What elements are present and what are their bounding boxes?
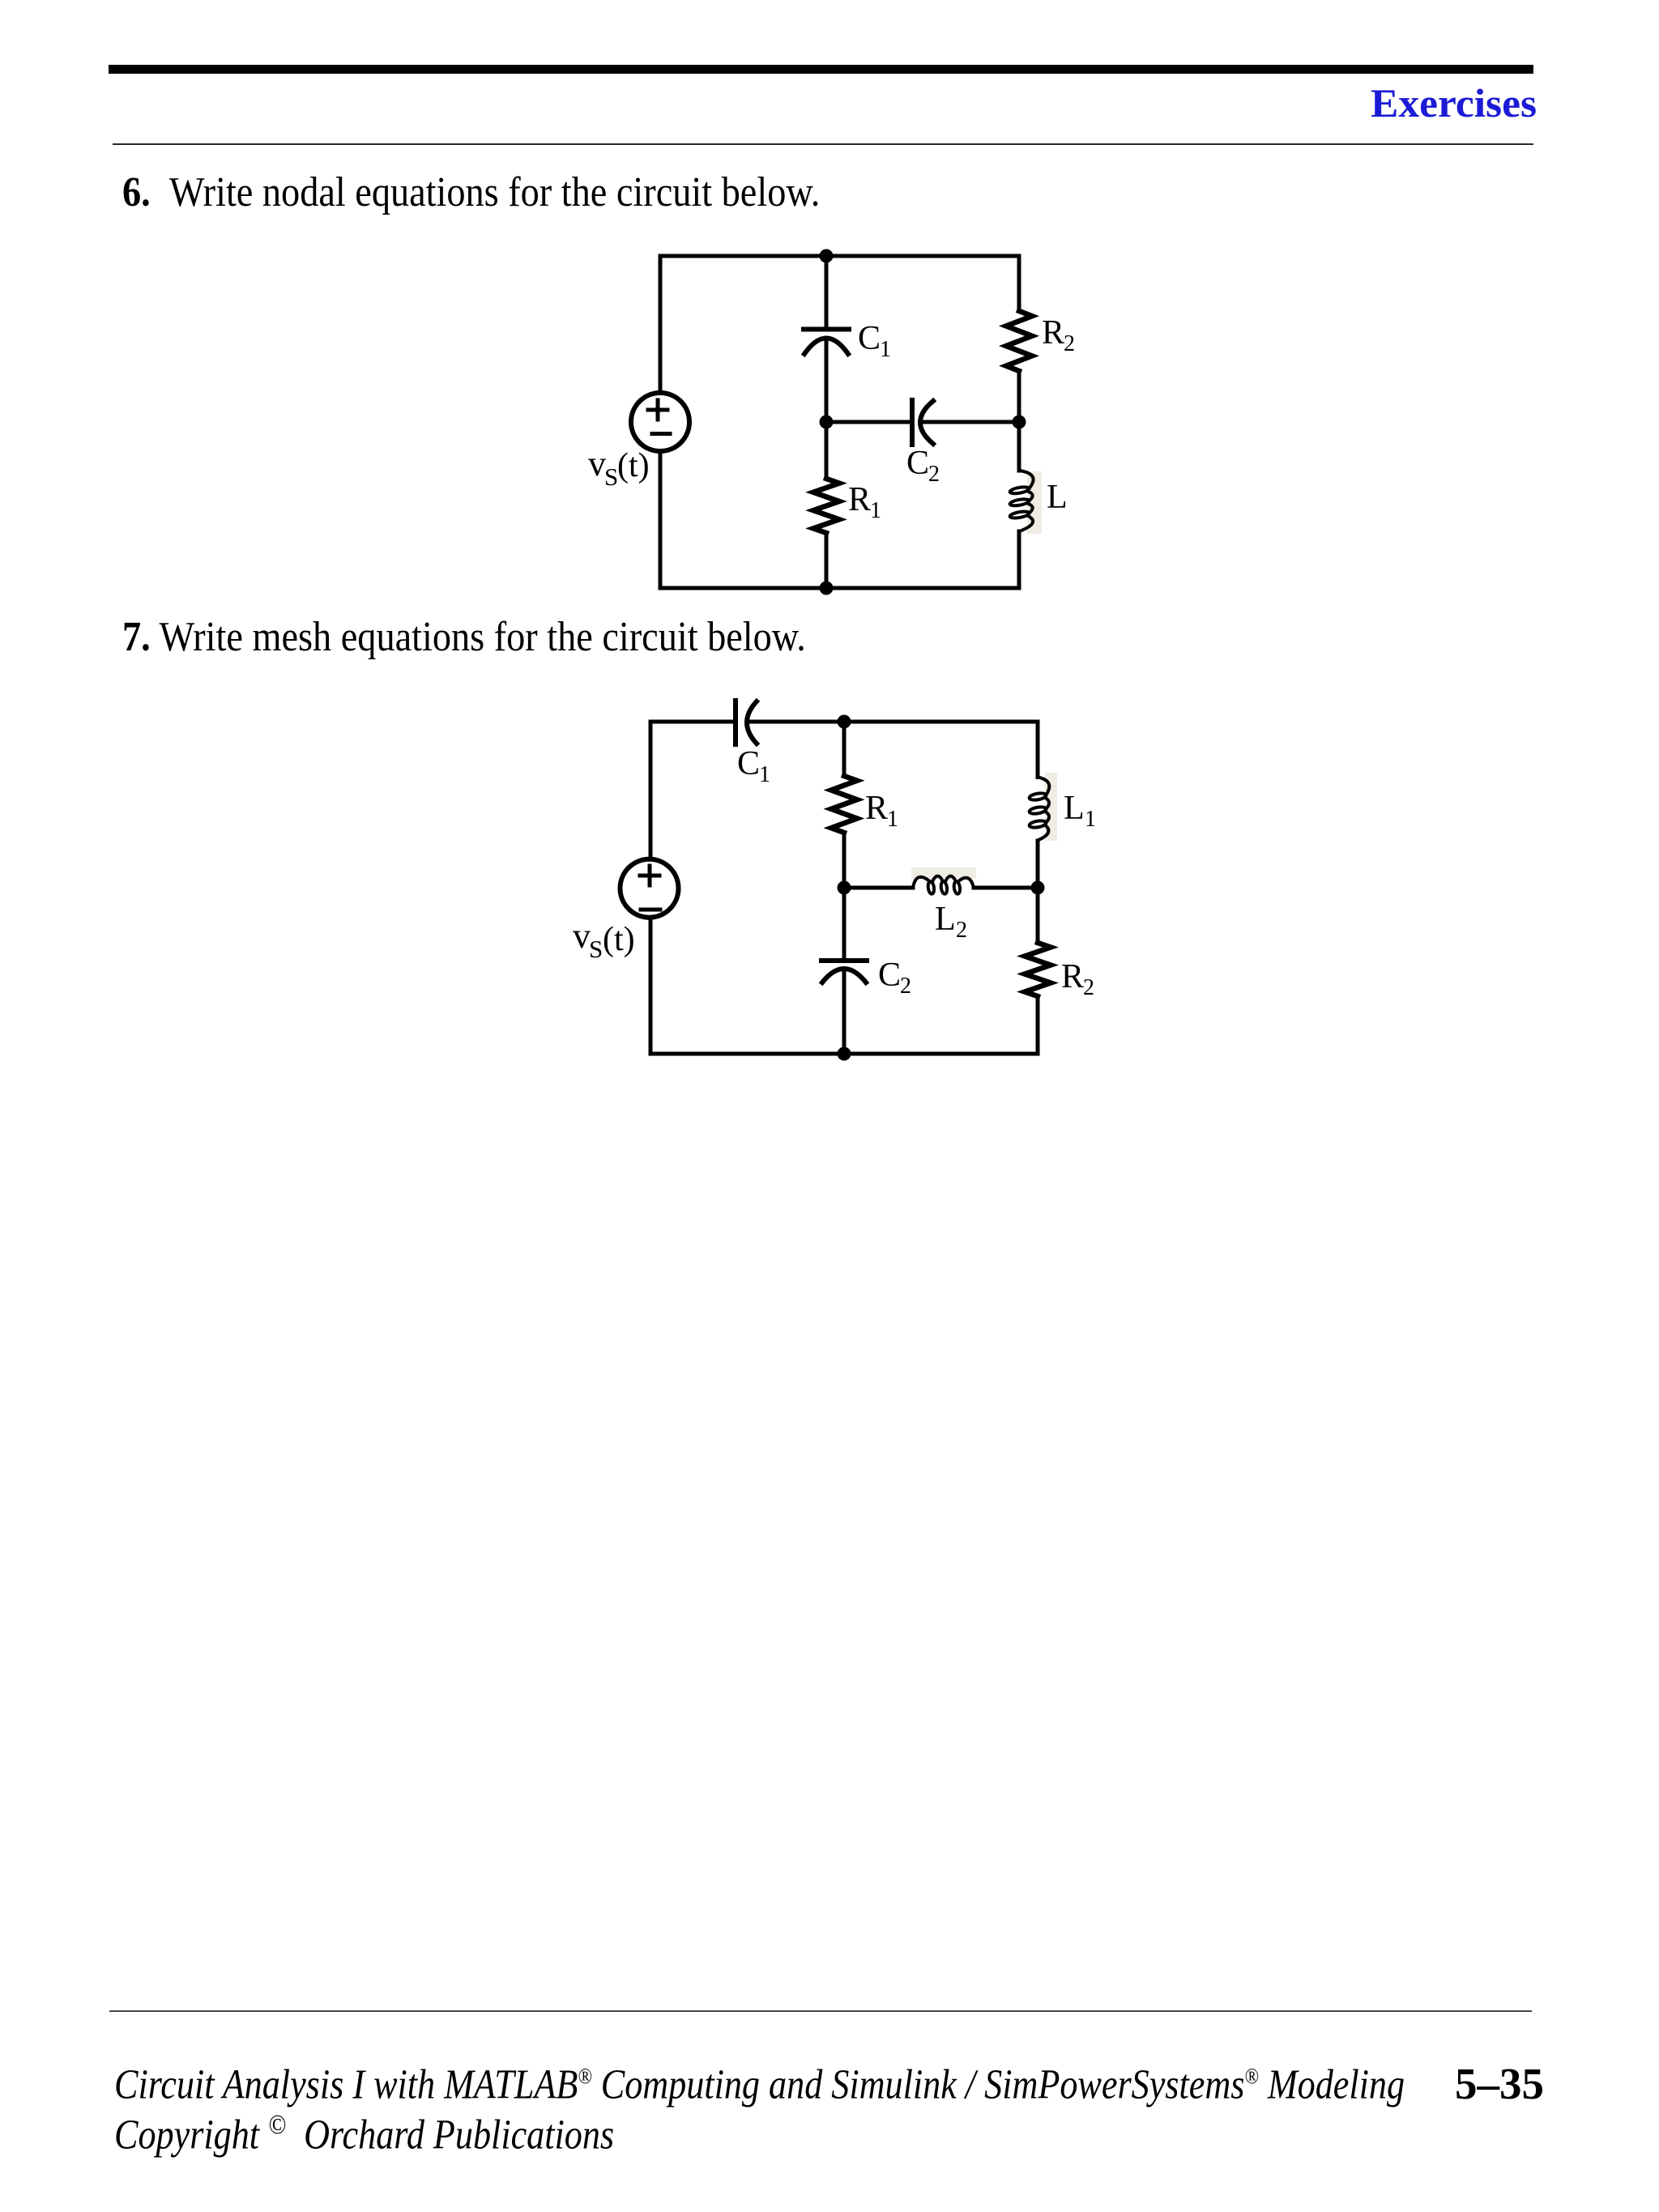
voltage source vs(t) circuit 1: [631, 393, 689, 451]
svg-text:2: 2: [900, 974, 911, 999]
svg-text:1: 1: [887, 807, 898, 832]
svg-text:C: C: [878, 957, 901, 994]
svg-text:C: C: [858, 320, 881, 357]
node: c2 top junction: [838, 715, 851, 729]
svg-text:2: 2: [1083, 975, 1094, 1000]
footer page number: [1296, 2061, 1544, 2106]
wire: c2 left vertical upper: [649, 722, 653, 859]
node: c1 bottom junction: [820, 582, 834, 595]
shading behind inductor L1: [1045, 773, 1057, 841]
wire: c2 left vertical lower: [649, 918, 653, 1054]
node: c1 middle-left junction: [820, 416, 834, 429]
svg-text:R: R: [1042, 314, 1064, 352]
svg-text:C: C: [906, 445, 929, 482]
header thick rule: [109, 65, 1533, 74]
svg-text:1: 1: [870, 498, 881, 523]
node: c1 middle-right junction: [1013, 416, 1026, 429]
wire: c2 top horizontal right of C1: [747, 720, 1038, 724]
capacitor C1 (circuit 1): [804, 330, 849, 355]
svg-text:2: 2: [928, 462, 940, 487]
svg-text:S: S: [589, 935, 603, 963]
node: c2 middle-left junction: [838, 881, 851, 895]
inductor L (circuit 1): [1009, 471, 1033, 531]
wire: c1 right vertical between R2 and node: [1017, 371, 1021, 422]
wire: c1 middle branch lower: [825, 533, 829, 588]
wire: c1 right vertical upper: [1017, 256, 1021, 311]
inductor L1 (circuit 2): [1029, 778, 1049, 841]
wire: c1 mid horizontal left of C2: [826, 420, 912, 424]
wire: c2 right vertical lower: [1036, 996, 1040, 1054]
capacitor C2 (circuit 1): [912, 400, 933, 445]
header title Exercises: [702, 83, 1537, 123]
svg-text:(t): (t): [603, 921, 635, 958]
svg-text:L: L: [1064, 790, 1085, 827]
svg-text:S: S: [604, 462, 618, 491]
svg-text:1: 1: [880, 337, 891, 362]
wire: c1 right vertical lower: [1017, 531, 1021, 588]
footer thin rule: [109, 2010, 1532, 2012]
wire: c1 left vertical upper: [659, 256, 663, 392]
wire: c2 mid horizontal right of L2: [974, 886, 1038, 890]
svg-text:2: 2: [956, 918, 967, 943]
wire: c2 middle branch upper: [842, 722, 847, 776]
wire: c2 top horizontal left of C1: [650, 720, 736, 724]
wire: c1 bottom horizontal: [660, 586, 1019, 590]
voltage source vs(t) circuit 2: [621, 859, 679, 918]
svg-text:R: R: [848, 481, 871, 518]
svg-text:L: L: [1047, 479, 1068, 516]
wire: c2 right vertical upper: [1036, 722, 1040, 778]
svg-text:R: R: [865, 790, 888, 827]
wire: c1 mid horizontal right of C2: [922, 420, 1019, 424]
resistor R2 (circuit 1): [1006, 311, 1032, 371]
wire: c2 middle branch lower: [842, 971, 847, 1054]
shading behind inductor L: [1027, 471, 1042, 534]
wire: c2 bottom horizontal: [650, 1052, 1038, 1056]
header thin rule: [113, 143, 1533, 145]
footer line 2: [114, 2104, 614, 2156]
svg-text:R: R: [1061, 958, 1084, 995]
wire: c1 middle branch below C1: [825, 341, 829, 479]
resistor R2 (circuit 2): [1025, 943, 1051, 996]
footer line 1: [114, 2055, 1405, 2106]
item 7 text: [122, 616, 806, 658]
node: c2 bottom junction: [838, 1047, 851, 1061]
node: c1 top junction: [820, 249, 834, 263]
svg-text:1: 1: [759, 762, 770, 787]
wire: c1 right vertical between node and L: [1017, 422, 1021, 471]
wire: c1 left vertical lower: [659, 452, 663, 588]
shading behind inductor L2: [911, 867, 976, 879]
svg-text:v: v: [573, 916, 591, 956]
wire: c2 middle branch between R1 and C2: [842, 833, 847, 961]
svg-text:(t): (t): [617, 447, 650, 484]
svg-text:C: C: [737, 745, 760, 782]
capacitor C2 (circuit 2): [821, 961, 867, 982]
svg-text:v: v: [588, 444, 606, 484]
wire: c1 top horizontal: [660, 254, 1019, 258]
resistor R1 (circuit 1): [813, 479, 839, 533]
wire: c2 mid horizontal left of L2: [844, 886, 913, 890]
svg-text:L: L: [935, 901, 956, 938]
capacitor C1 (circuit 2): [736, 701, 757, 744]
wire: c2 right vertical between L1 and node: [1036, 841, 1040, 943]
svg-text:1: 1: [1085, 807, 1096, 832]
item 6 text: [122, 172, 820, 214]
resistor R1 (circuit 2): [831, 776, 857, 833]
node: c2 middle-right junction: [1031, 881, 1045, 895]
inductor L2 (circuit 2): [913, 876, 974, 894]
wire: c1 middle branch upper: [825, 256, 829, 326]
svg-text:2: 2: [1064, 331, 1075, 356]
